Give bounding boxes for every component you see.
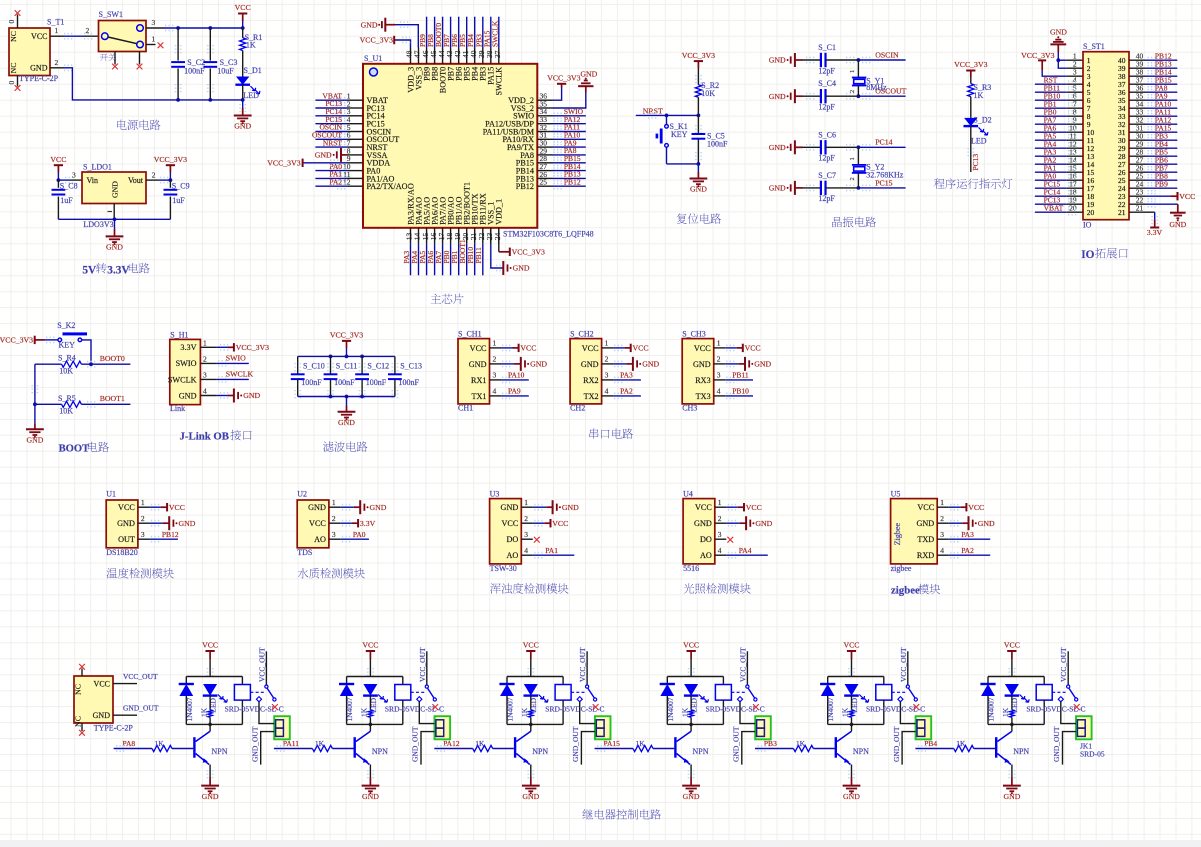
svg-text:2: 2 — [718, 514, 722, 523]
svg-text:DO: DO — [506, 535, 518, 544]
capacitor S_C13 100nF — [394, 356, 396, 374]
svg-text:PA8: PA8 — [123, 739, 136, 748]
relay switch unit 6 — [1052, 691, 1067, 693]
svg-text:VCC: VCC — [235, 3, 251, 12]
svg-text:SWCLK: SWCLK — [226, 369, 254, 378]
svg-text:S_CH2: S_CH2 — [570, 330, 594, 339]
svg-text:3: 3 — [718, 530, 722, 539]
svg-text:IO: IO — [1081, 249, 1094, 261]
power flag VCC for LDO — [54, 164, 63, 166]
svg-text:3: 3 — [141, 530, 145, 539]
svg-text:NC: NC — [9, 63, 18, 74]
emitter to GND unit 5 — [851, 765, 853, 778]
svg-text:CH1: CH1 — [458, 403, 473, 412]
svg-text:GND: GND — [117, 519, 135, 528]
CH3 RX net PB11 — [726, 377, 735, 382]
svg-text:0: 0 — [7, 20, 16, 24]
svg-text:PB11: PB11 — [474, 247, 483, 264]
transistor NPN unit 2 — [354, 737, 356, 758]
wire VCC to LDO Vin — [57, 178, 61, 182]
svg-text:2: 2 — [524, 514, 528, 523]
svg-text:S_C9: S_C9 — [172, 181, 190, 190]
resistor 1K vertical unit 3 — [529, 710, 533, 718]
filter bottom rail — [298, 396, 395, 398]
U2 pin 1 GND -> gnd — [342, 505, 351, 510]
svg-text:4: 4 — [524, 546, 528, 555]
green terminal block unit 3 — [595, 716, 611, 739]
wire VCC_OUT from connector — [113, 683, 137, 685]
svg-text:J-Link OB: J-Link OB — [180, 430, 230, 442]
U1 pin36 VDD_2 to VCC_3V3 flag — [553, 88, 562, 101]
relay unit 1 power flag VCC — [206, 650, 215, 652]
svg-text:GND: GND — [1169, 220, 1186, 229]
svg-text:S_U1: S_U1 — [364, 54, 382, 63]
svg-text:3: 3 — [493, 371, 497, 380]
svg-text:2: 2 — [332, 514, 336, 523]
svg-text:1N4007: 1N4007 — [826, 697, 835, 721]
relay switch unit 3 — [571, 691, 586, 693]
svg-text:PA10: PA10 — [508, 371, 525, 380]
U1 pin9 VDDA to VCC_3V3 — [330, 160, 339, 165]
SW1 pin stubs with no-connect — [114, 52, 116, 65]
svg-text:IO: IO — [1083, 220, 1092, 229]
svg-text:S_ST1: S_ST1 — [1083, 42, 1105, 51]
svg-text:PB12: PB12 — [162, 530, 179, 539]
svg-text:LDO3V3: LDO3V3 — [83, 220, 113, 229]
U1 pin47 VSS_3 to GND — [395, 25, 418, 48]
svg-text:3.3V: 3.3V — [1147, 228, 1163, 237]
capacitor S_C8 1uF — [57, 180, 59, 188]
net BOOT1 wire — [81, 403, 130, 405]
svg-text:S_CH1: S_CH1 — [458, 330, 482, 339]
ST1 pin 22 to GND flag — [1129, 203, 1146, 205]
emitter to GND unit 2 — [369, 765, 371, 778]
svg-text:1N4007: 1N4007 — [666, 697, 675, 721]
green terminal block unit 2 — [435, 716, 451, 739]
svg-text:CH2: CH2 — [570, 403, 585, 412]
base net PB3 unit 5 — [755, 748, 793, 750]
diode 1N4007 unit 3 — [506, 677, 508, 685]
svg-text:VCC_3V3: VCC_3V3 — [954, 60, 987, 69]
loop bottom rail unit 1 — [186, 723, 242, 725]
svg-text:S_C6: S_C6 — [818, 130, 836, 139]
CH1 VCC flag — [502, 345, 511, 350]
svg-text:SRD-05VDC-SL-C: SRD-05VDC-SL-C — [706, 705, 765, 714]
svg-text:PA15: PA15 — [604, 739, 621, 748]
svg-text:GND: GND — [308, 503, 326, 512]
svg-text:GND: GND — [501, 503, 519, 512]
ground GND for S_C7 — [794, 181, 796, 195]
svg-text:2: 2 — [152, 171, 156, 180]
svg-text:SWCLK: SWCLK — [495, 67, 504, 96]
svg-text:GND: GND — [106, 243, 123, 252]
svg-text:VCC_3V3: VCC_3V3 — [1021, 51, 1054, 60]
svg-text:PA2: PA2 — [961, 546, 974, 555]
svg-text:1uF: 1uF — [60, 196, 73, 205]
svg-text:4: 4 — [717, 387, 721, 396]
svg-text:PA1: PA1 — [545, 546, 558, 555]
svg-text:S_C10: S_C10 — [303, 362, 325, 371]
wire switch to terminal unit 4 — [740, 702, 755, 724]
U1 pin23 VSS_1 to GND — [490, 228, 492, 244]
svg-text:PB12: PB12 — [516, 182, 534, 191]
U5 pin 1 VCC -> VCC — [950, 505, 959, 510]
CH2 GND flag — [614, 361, 623, 366]
filter top rail — [298, 355, 395, 357]
svg-text:1: 1 — [493, 339, 497, 348]
U5 pin 4 RXD -> PA2 — [950, 553, 959, 558]
svg-text:VCC_OUT: VCC_OUT — [738, 647, 747, 682]
resistor S_R1 1K — [242, 28, 244, 38]
svg-text:Vout: Vout — [128, 176, 144, 185]
svg-text:2: 2 — [717, 355, 721, 364]
svg-text:BOOT1: BOOT1 — [100, 394, 125, 403]
svg-text:VCC: VCC — [501, 519, 518, 528]
svg-text:GND: GND — [202, 792, 219, 801]
pin-1 marker — [370, 68, 378, 76]
svg-text:VCC_3V3: VCC_3V3 — [360, 36, 393, 45]
svg-text:100nF: 100nF — [184, 66, 205, 75]
svg-text:VCC_OUT: VCC_OUT — [1059, 647, 1068, 682]
power flag VCC_3V3 — [166, 164, 175, 166]
svg-text:SWIO: SWIO — [176, 359, 197, 368]
svg-text:VCC_OUT: VCC_OUT — [578, 647, 587, 682]
green terminal block unit 6 — [1076, 716, 1092, 739]
svg-text:2: 2 — [605, 355, 609, 364]
svg-text:SWCLK: SWCLK — [490, 20, 499, 47]
base net PA12 unit 3 — [434, 748, 472, 750]
svg-text:GND: GND — [580, 70, 597, 79]
relay switch unit 4 — [731, 691, 746, 693]
svg-text:1uF: 1uF — [172, 196, 185, 205]
svg-text:NPN: NPN — [212, 747, 228, 756]
wire GND_OUT unit 4 — [742, 732, 755, 765]
capacitor S_C3 10uF — [209, 28, 211, 61]
svg-text:PB3: PB3 — [764, 739, 777, 748]
wire switch to terminal unit 6 — [1061, 702, 1076, 724]
svg-text:GND: GND — [769, 92, 786, 101]
svg-text:VCC: VCC — [582, 344, 599, 353]
resistor 1K vertical unit 6 — [1010, 710, 1015, 718]
svg-text:GND: GND — [769, 184, 786, 193]
svg-text:20: 20 — [1087, 208, 1095, 217]
svg-text:AO: AO — [506, 551, 518, 560]
title light module — [684, 583, 695, 593]
relay unit 4 power flag VCC — [687, 650, 696, 652]
svg-text:VCC_OUT: VCC_OUT — [899, 647, 908, 682]
svg-text:PA2: PA2 — [620, 387, 633, 396]
svg-text:PA4: PA4 — [739, 546, 752, 555]
svg-text:SRD-05: SRD-05 — [1080, 749, 1105, 758]
svg-text:37: 37 — [493, 50, 502, 58]
title crystal circuit — [832, 217, 842, 227]
svg-text:1N4007: 1N4007 — [345, 697, 354, 721]
U1 pin35 VSS_2 to GND flag — [553, 93, 586, 109]
svg-text:12pF: 12pF — [818, 194, 835, 203]
svg-text:GND: GND — [769, 143, 786, 152]
svg-text:1K: 1K — [199, 707, 208, 717]
svg-text:10uF: 10uF — [217, 66, 234, 75]
svg-text:4: 4 — [203, 387, 207, 396]
svg-text:4: 4 — [940, 546, 944, 555]
svg-text:1N4007: 1N4007 — [185, 697, 194, 721]
U2 pin 2 VCC -> 3.3V — [342, 521, 351, 526]
svg-text:S_K2: S_K2 — [57, 321, 75, 330]
base resistor 1K unit 4 — [633, 745, 653, 751]
wires GND to ST1 pins 1 and 2 — [1056, 58, 1060, 62]
svg-text:VCC_3V3: VCC_3V3 — [547, 74, 580, 83]
U1 pin24 VDD_1 to VCC_3V3 — [498, 228, 500, 252]
base resistor 1K unit 2 — [312, 745, 332, 751]
capacitor S_C4 12pF — [820, 89, 822, 103]
svg-text:PB11: PB11 — [732, 371, 749, 380]
svg-text:VCC: VCC — [694, 344, 711, 353]
title main chip — [431, 294, 441, 304]
svg-text:100nF: 100nF — [334, 378, 355, 387]
svg-text:GND: GND — [522, 792, 539, 801]
svg-text:S_D2: S_D2 — [973, 115, 991, 124]
title relay control circuit — [582, 809, 593, 819]
svg-text:1K: 1K — [841, 707, 850, 717]
svg-text:GND: GND — [234, 122, 251, 131]
relay unit 5 power flag VCC — [847, 650, 856, 652]
svg-text:1: 1 — [203, 338, 207, 347]
svg-text:TX2: TX2 — [584, 392, 599, 401]
relay unit 5 loop top rail — [828, 676, 884, 678]
svg-text:VCC_OUT: VCC_OUT — [123, 672, 158, 681]
svg-text:PC13: PC13 — [971, 154, 980, 171]
wire switch to terminal unit 1 — [259, 702, 274, 724]
svg-text:VDD_1: VDD_1 — [495, 199, 504, 225]
svg-text:VCC_3V3: VCC_3V3 — [0, 336, 33, 345]
svg-text:GND: GND — [179, 391, 197, 400]
svg-text:S_C12: S_C12 — [367, 362, 389, 371]
U1 pin 2 GND -> gnd — [151, 521, 160, 526]
svg-text:3.3V: 3.3V — [107, 264, 130, 276]
svg-text:BOOT: BOOT — [59, 444, 90, 455]
title program run indicator — [934, 178, 945, 188]
svg-text:TYPE-C-2P: TYPE-C-2P — [94, 723, 134, 732]
H1 pin1 to VCC_3V3 flag — [220, 345, 229, 350]
svg-text:S_C11: S_C11 — [336, 362, 358, 371]
svg-text:GND: GND — [111, 181, 120, 198]
svg-text:NRST: NRST — [643, 106, 663, 115]
capacitor S_C6 12pF — [820, 140, 822, 154]
svg-text:Vin: Vin — [87, 176, 99, 185]
svg-text:PA3: PA3 — [620, 371, 633, 380]
svg-text:20: 20 — [1069, 204, 1077, 213]
svg-text:1N4007: 1N4007 — [506, 697, 515, 721]
emitter to GND unit 6 — [1011, 765, 1013, 778]
capacitor S_C5 100nF — [697, 115, 699, 133]
svg-text:S_C8: S_C8 — [60, 181, 78, 190]
svg-text:VCC_3V3: VCC_3V3 — [682, 51, 715, 60]
relay unit 2 loop top rail — [347, 676, 403, 678]
svg-text:GND: GND — [978, 519, 995, 528]
transistor NPN unit 4 — [674, 737, 676, 758]
wire GND_OUT unit 2 — [421, 732, 435, 765]
svg-text:GND: GND — [362, 792, 379, 801]
svg-text:GND: GND — [642, 360, 659, 369]
relay unit 2 power flag VCC — [366, 650, 375, 652]
U4 pin 3 DO -> nc — [727, 537, 733, 543]
svg-text:GND_OUT: GND_OUT — [123, 704, 159, 713]
resistor 1K vertical unit 2 — [368, 710, 372, 718]
U2 pin 3 AO -> PA0 — [342, 537, 351, 542]
svg-text:GND: GND — [469, 360, 487, 369]
svg-text:4: 4 — [493, 387, 497, 396]
svg-text:100nF: 100nF — [301, 378, 322, 387]
svg-text:GND: GND — [30, 63, 48, 72]
diode 1N4007 unit 4 — [666, 677, 668, 685]
svg-text:4: 4 — [605, 387, 609, 396]
svg-text:GND: GND — [769, 56, 786, 65]
net PC14 wire — [857, 145, 861, 149]
svg-text:PB9: PB9 — [1155, 179, 1168, 188]
svg-text:1K: 1K — [360, 707, 369, 717]
svg-text:VCC: VCC — [917, 503, 934, 512]
wire GND_OUT unit 5 — [902, 732, 916, 765]
wire GND_OUT unit 6 — [1063, 732, 1077, 765]
push button S_K1 KEY — [666, 115, 668, 124]
svg-text:12pF: 12pF — [818, 154, 835, 163]
U3 pin 1 GND -> gnd — [534, 505, 543, 510]
svg-text:S_C1: S_C1 — [818, 43, 836, 52]
svg-text:GND: GND — [755, 519, 772, 528]
svg-text:VCC: VCC — [470, 344, 487, 353]
svg-text:VCC_OUT: VCC_OUT — [418, 647, 427, 682]
relay unit 6 loop top rail — [988, 676, 1044, 678]
base resistor 1K unit 3 — [473, 745, 493, 751]
svg-text:VCC: VCC — [31, 32, 47, 41]
H1 pin4 to GND — [220, 393, 229, 398]
svg-text:RXD: RXD — [917, 551, 934, 560]
loop bottom rail unit 6 — [988, 723, 1044, 725]
svg-text:VCC: VCC — [309, 519, 326, 528]
svg-text:2: 2 — [849, 90, 856, 93]
svg-text:VCC: VCC — [843, 641, 859, 650]
crystal S_Y1 8MHz — [857, 60, 859, 78]
svg-text:GND: GND — [694, 519, 712, 528]
diode 1N4007 unit 6 — [987, 677, 989, 685]
svg-text:LED: LED — [971, 137, 987, 146]
svg-text:VCC: VCC — [523, 641, 539, 650]
title serial circuit — [589, 428, 598, 438]
svg-text:STM32F103C8T6_LQFP48: STM32F103C8T6_LQFP48 — [503, 229, 594, 238]
svg-text:1: 1 — [152, 34, 156, 43]
svg-text:GND: GND — [370, 503, 387, 512]
svg-text:1: 1 — [141, 498, 145, 507]
svg-text:GND: GND — [1050, 27, 1067, 36]
svg-text:2: 2 — [55, 58, 59, 67]
ground GND of power circuit — [242, 100, 244, 108]
svg-text:U4: U4 — [683, 490, 693, 499]
power flag VCC_3V3 filter — [342, 340, 351, 342]
svg-text:VCC: VCC — [633, 344, 649, 353]
wire switch to terminal unit 5 — [900, 702, 915, 724]
svg-text:3: 3 — [332, 530, 336, 539]
U4 pin 1 VCC -> VCC — [728, 505, 737, 510]
loop bottom rail unit 2 — [347, 723, 403, 725]
connector TYPE-C-2P relay power — [74, 676, 113, 723]
svg-text:U1: U1 — [106, 490, 116, 499]
svg-text:3: 3 — [605, 371, 609, 380]
svg-text:1: 1 — [718, 498, 722, 507]
svg-text:1K: 1K — [520, 707, 529, 717]
svg-text:TX3: TX3 — [696, 392, 711, 401]
resistor S_R2 10K — [695, 85, 701, 97]
svg-text:GND: GND — [581, 360, 599, 369]
svg-text:GND: GND — [315, 151, 332, 160]
svg-text:VCC_3V3: VCC_3V3 — [512, 247, 545, 256]
ST1 pin 21 to 3.3V flag — [1129, 211, 1155, 213]
relay coil unit 5 — [883, 677, 885, 685]
svg-text:S_SW1: S_SW1 — [99, 10, 123, 19]
relay unit 3 loop top rail — [507, 676, 563, 678]
svg-text:NPN: NPN — [372, 747, 388, 756]
svg-text:SRD-05VDC-SL-C: SRD-05VDC-SL-C — [225, 705, 284, 714]
svg-text:GND_OUT: GND_OUT — [411, 726, 420, 762]
svg-text:21: 21 — [1118, 208, 1126, 217]
relay coil unit 2 — [402, 677, 404, 685]
svg-text:S_C7: S_C7 — [818, 171, 836, 180]
net OSCOUT wire — [857, 94, 861, 98]
base net PA15 unit 4 — [595, 748, 633, 750]
svg-text:12pF: 12pF — [818, 103, 835, 112]
svg-text:OUT: OUT — [118, 535, 135, 544]
connector S_T1 TYPE-C-2P — [9, 28, 50, 76]
svg-text:TX1: TX1 — [471, 392, 486, 401]
svg-text:U5: U5 — [891, 490, 901, 499]
svg-text:10K: 10K — [59, 407, 73, 416]
LED unit 2 — [363, 684, 377, 696]
LED unit 6 — [1005, 684, 1019, 696]
green terminal block unit 1 — [274, 716, 290, 739]
svg-text:GND: GND — [843, 792, 860, 801]
svg-text:SRD-05VDC-SL-C: SRD-05VDC-SL-C — [866, 705, 925, 714]
resistor 1K vertical unit 1 — [208, 710, 212, 718]
svg-text:5516: 5516 — [683, 564, 699, 573]
wire GND_OUT unit 1 — [261, 732, 275, 765]
svg-text:VCC: VCC — [1179, 192, 1195, 201]
svg-text:100nF: 100nF — [366, 378, 387, 387]
T1 bottom no-connect stub — [17, 76, 19, 87]
svg-text:1K: 1K — [796, 739, 806, 748]
relay coil unit 1 — [241, 677, 243, 685]
svg-text:TXD: TXD — [917, 535, 934, 544]
transistor NPN unit 1 — [193, 737, 195, 758]
svg-text:SWIO: SWIO — [226, 353, 246, 362]
CH1 RX net PA10 — [502, 377, 511, 382]
svg-text:GND: GND — [26, 436, 43, 445]
ground GND filter — [346, 397, 348, 406]
svg-text:GND: GND — [338, 418, 355, 427]
green terminal block unit 4 — [755, 716, 771, 739]
resistor 1K vertical unit 5 — [849, 710, 853, 718]
svg-text:3.3V: 3.3V — [180, 343, 196, 352]
svg-text:S_C13: S_C13 — [400, 362, 422, 371]
ground GND for S_C6 — [794, 140, 796, 154]
svg-text:VCC_3V3: VCC_3V3 — [267, 158, 300, 167]
svg-text:PA2/TX/AO: PA2/TX/AO — [367, 182, 408, 191]
LED unit 4 — [684, 684, 698, 696]
svg-text:1: 1 — [717, 339, 721, 348]
CH3 VCC flag — [726, 345, 735, 350]
svg-text:1K: 1K — [475, 739, 485, 748]
svg-text:3: 3 — [717, 371, 721, 380]
capacitor S_C7 12pF — [820, 181, 822, 195]
relay unit 4 loop top rail — [667, 676, 723, 678]
